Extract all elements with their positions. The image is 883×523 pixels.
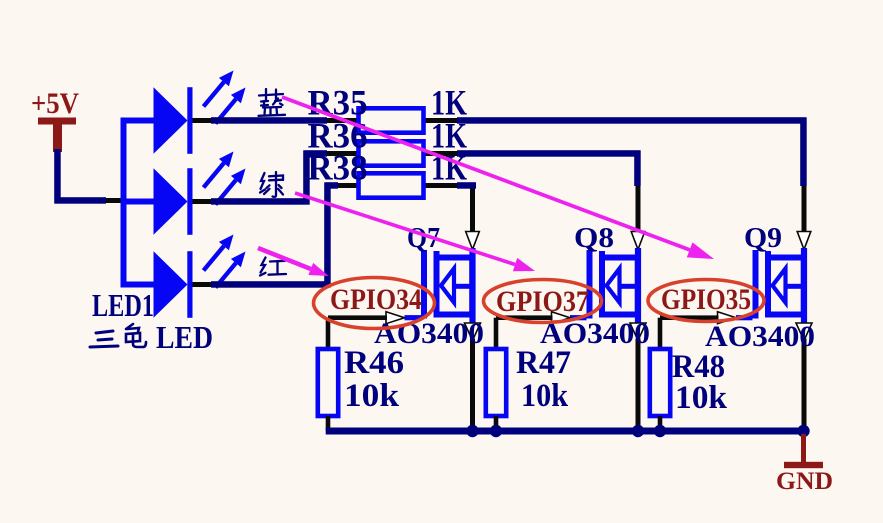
label Q9 [744, 222, 782, 254]
svg-text:GPIO34: GPIO34 [330, 283, 422, 316]
label R36 [308, 116, 368, 156]
svg-text:Q8: Q8 [574, 222, 614, 254]
green LED cathode pin [193, 199, 212, 204]
label Q8 [574, 222, 614, 254]
label 1K (R38) [431, 148, 467, 188]
transistor Q8 gate wire [496, 315, 553, 320]
label R48 [672, 349, 725, 385]
label Q7 [407, 222, 440, 254]
label 1K (R36) [431, 116, 467, 156]
svg-text:GPIO35: GPIO35 [661, 283, 751, 316]
resistor R48 top pin wire [658, 318, 663, 349]
svg-text:10k: 10k [675, 380, 728, 416]
svg-text:GPIO37: GPIO37 [496, 285, 589, 318]
transistor Q8 AO3400 symbol [570, 248, 641, 323]
transistor Q7 source pin wire [470, 339, 475, 432]
resistor R47 bottom pin wire [494, 416, 499, 431]
transistor Q9 source pin arrow [796, 323, 812, 341]
svg-text:LED1: LED1 [92, 287, 154, 323]
label R38 [308, 148, 368, 188]
label AO3400 (Q9) [705, 320, 815, 353]
ground symbol GND [776, 434, 833, 495]
svg-text:+5V: +5V [31, 87, 79, 120]
LED1 anode bus [121, 118, 155, 288]
wire green row [211, 150, 641, 205]
svg-text:R47: R47 [516, 345, 571, 381]
svg-text:GND: GND [776, 468, 833, 495]
LED1 green LED [154, 152, 246, 235]
transistor Q7 drain pin arrow [466, 232, 480, 250]
svg-text:R46: R46 [344, 345, 404, 381]
junction at x=804 [797, 425, 809, 437]
transistor Q7 gate pin arrow [386, 312, 405, 324]
transistor Q9 source pin wire [802, 339, 807, 432]
resistor R46 bottom pin wire [326, 416, 331, 431]
power symbol +5V [31, 87, 79, 152]
resistor R38 1K [359, 173, 424, 197]
red LED cathode pin [193, 282, 212, 287]
transistor Q9 gate pin arrow [718, 312, 737, 324]
label R35 [308, 83, 368, 123]
label 三色 LED [90, 319, 213, 355]
resistor R47 10k [486, 349, 506, 416]
junction at x=496 [490, 425, 502, 437]
ground rail wire [326, 428, 807, 435]
LED1 red LED [154, 235, 246, 318]
svg-text:Q9: Q9 [744, 222, 782, 254]
resistor R48 bottom pin wire [658, 416, 663, 431]
wire red row [211, 182, 476, 288]
transistor Q7 drain pin wire [470, 189, 475, 233]
annotation arrow to GPIO34 [258, 248, 329, 276]
resistor R46 10k [318, 349, 338, 416]
label 蓝 blue [259, 89, 286, 116]
transistor Q8 gate pin arrow [552, 312, 571, 324]
transistor Q7 gate wire [328, 315, 387, 320]
resistor R35 1K [359, 108, 424, 132]
blue LED cathode pin [193, 118, 212, 123]
label LED1 [92, 287, 154, 323]
transistor Q8 drain pin arrow [631, 232, 645, 250]
junction at x=660 [654, 425, 666, 437]
LED1 blue LED [154, 71, 246, 154]
wire +5V to LED1 anode [54, 149, 121, 204]
transistor Q9 AO3400 symbol [736, 248, 807, 323]
label R46 [344, 345, 404, 381]
label 10k (R46) [344, 378, 400, 414]
transistor Q9 drain pin arrow [797, 232, 811, 250]
resistor R47 top pin wire [494, 318, 499, 349]
svg-text:10k: 10k [344, 378, 400, 414]
svg-text:R38: R38 [308, 148, 368, 188]
svg-text:10k: 10k [521, 378, 569, 414]
label 10k (R47) [521, 378, 569, 414]
annotation arrow to GPIO35 [282, 97, 714, 259]
transistor Q7 source pin arrow [465, 323, 481, 341]
junction at x=638 [632, 425, 644, 437]
label AO3400 (Q8) [540, 317, 650, 350]
net label GPIO34 [314, 278, 435, 329]
label AO3400 (Q7) [374, 317, 484, 350]
net label GPIO35 [648, 280, 764, 322]
wire blue row [211, 117, 807, 186]
transistor Q7 AO3400 symbol [405, 248, 476, 323]
annotation arrow to GPIO37 [295, 193, 535, 271]
junction at x=472 [466, 425, 478, 437]
label 10k (R48) [675, 380, 728, 416]
resistor R46 top pin wire [326, 318, 331, 349]
label R47 [516, 345, 571, 381]
transistor Q8 source pin arrow [630, 323, 646, 341]
svg-text:LED: LED [156, 319, 213, 355]
transistor Q8 drain pin wire [636, 186, 641, 232]
label 1K (R35) [431, 83, 467, 123]
net label GPIO37 [484, 280, 602, 323]
transistor Q9 gate wire [660, 315, 719, 320]
label 绿 green [260, 172, 283, 197]
resistor R48 10k [650, 349, 670, 416]
label 红 red [260, 258, 286, 276]
transistor Q8 source pin wire [636, 339, 641, 432]
resistor R36 1K [359, 141, 424, 165]
transistor Q9 drain pin wire [802, 186, 807, 232]
